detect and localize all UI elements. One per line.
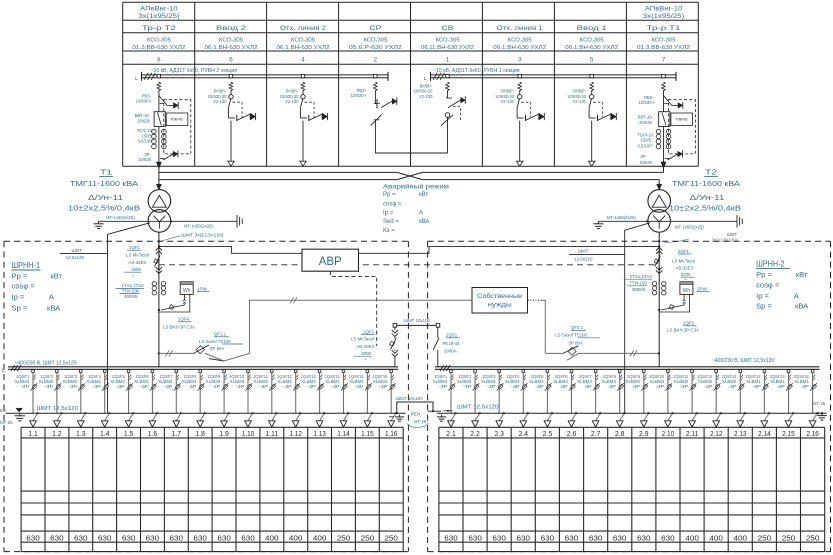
feeder 2QSF5 (529, 370, 553, 427)
aux supply box (Sobstvennye nuzhdy) (472, 288, 528, 314)
svg-text:Рр =: Рр = (383, 192, 396, 198)
feeder 2QSF10 (649, 370, 674, 427)
switch QF2.1 (545, 346, 660, 360)
table row: cell names (142, 25, 681, 32)
svg-text:250: 250 (806, 533, 820, 542)
svg-text:1.6: 1.6 (148, 429, 158, 438)
cell 1 (SV): VNVR bus coupler switch (441, 74, 465, 153)
feeder 2QSF1 (433, 370, 457, 427)
svg-text:0,5/10Р: 0,5/10Р (138, 139, 153, 144)
feeder table ShRNN-2 frame (439, 427, 825, 551)
svg-text:АВР: АВР (319, 256, 342, 268)
svg-text:Тр-р Т1: Тр-р Т1 (647, 25, 682, 32)
svg-text:0,5/10Р: 0,5/10Р (638, 143, 653, 148)
svg-text:КСО-305: КСО-305 (363, 38, 388, 44)
CT 2TA1,2TA3 (652, 281, 666, 295)
CT 1TA1,1TA3 (152, 281, 166, 295)
feeder table ShRNN-1 circuit numbers (28, 429, 397, 438)
svg-text:-3Р: -3Р (69, 384, 78, 389)
svg-text:630: 630 (170, 533, 184, 542)
svg-text:400: 400 (709, 533, 723, 542)
svg-text:1.5: 1.5 (124, 429, 134, 438)
svg-text:ШМТ 12,5х120: ШМТ 12,5х120 (37, 406, 79, 412)
HV switchgear table frame (123, 2, 699, 166)
feeder 1QSF10 (229, 370, 254, 427)
cell 6 (Vvod 2): VNVR switch (228, 74, 256, 166)
emergency mode text block (383, 183, 449, 233)
svg-text:У2-130: У2-130 (213, 99, 227, 104)
svg-text:3Р 80А: 3Р 80А (210, 346, 224, 351)
svg-text:630: 630 (565, 533, 579, 542)
svg-text:06.1.ВН-630 УХЛ2: 06.1.ВН-630 УХЛ2 (277, 45, 330, 51)
switch QF1.1 (194, 345, 250, 361)
svg-text:2ТА1,2ТА3: 2ТА1,2ТА3 (630, 274, 652, 279)
svg-text:10/630: 10/630 (138, 157, 151, 162)
svg-text:Т1: Т1 (100, 168, 112, 177)
svg-text:1PW: 1PW (197, 286, 208, 291)
svg-text:3х(1х95/25): 3х(1х95/25) (138, 13, 179, 20)
svg-text:2PW: 2PW (697, 286, 708, 291)
svg-text:cosφ =: cosφ = (383, 201, 402, 207)
ShMT bus label left (60, 248, 108, 260)
svg-text:630: 630 (241, 533, 255, 542)
T2 LV bus label (664, 232, 738, 243)
svg-text:2.7: 2.7 (591, 429, 601, 438)
svg-text:Wh: Wh (183, 288, 191, 294)
svg-text:2.5: 2.5 (543, 429, 553, 438)
svg-text:1.16: 1.16 (385, 429, 398, 438)
svg-text:2.6: 2.6 (567, 429, 577, 438)
svg-text:Δ/Ун-11: Δ/Ун-11 (88, 193, 123, 202)
svg-text:630: 630 (541, 533, 555, 542)
svg-text:~10 кВ, АД31Т 6х60, РУВН 1 сек: ~10 кВ, АД31Т 6х60, РУВН 1 секция (433, 68, 520, 74)
ShMT bus label right (569, 249, 625, 262)
PE bus right (437, 401, 827, 420)
svg-text:7: 7 (662, 57, 666, 64)
cell 2 labels (351, 88, 367, 98)
svg-text:630: 630 (468, 533, 482, 542)
T1 LV bus label (162, 233, 225, 241)
svg-text:1QF4: 1QF4 (178, 317, 190, 322)
svg-text:LS MeTasol: LS MeTasol (126, 253, 149, 258)
svg-text:-3Р: -3Р (260, 384, 269, 389)
svg-text:Кэ =: Кэ = (383, 228, 395, 234)
svg-text:Sр =: Sр = (756, 301, 772, 310)
feeder 2QSF13 (722, 370, 747, 427)
svg-text:ЗР-: ЗР- (640, 154, 647, 159)
svg-text:6: 6 (229, 57, 233, 64)
svg-text:-3Р: -3Р (607, 384, 616, 389)
svg-text:Рр =: Рр = (756, 270, 772, 279)
svg-text:нужды: нужды (488, 302, 512, 309)
busbar section 2 (10 kV) (135, 72, 388, 81)
svg-text:630: 630 (74, 533, 88, 542)
svg-text:Wh: Wh (683, 288, 691, 294)
svg-text:кВт: кВт (419, 192, 428, 198)
svg-text:630: 630 (637, 533, 651, 542)
svg-text:PEN: PEN (411, 411, 420, 416)
svg-text:LS Susol ТЕ100: LS Susol ТЕ100 (199, 339, 231, 344)
wire: riser to aux box left (250, 297, 473, 353)
wire: cell 8 drop (158, 166, 160, 179)
T1 HV cable termination right (184, 215, 242, 229)
table row: cell numbers (157, 57, 666, 64)
wire crossover X (397, 172, 423, 179)
svg-text:2000А: 2000А (444, 349, 457, 354)
svg-text:МГ-1х50(2х25): МГ-1х50(2х25) (675, 225, 704, 230)
wire: drop into T2 with arrow (657, 180, 662, 190)
cell 6 labels (208, 89, 228, 104)
svg-text:400: 400 (289, 533, 303, 542)
svg-text:06.1.ВН-630 УХЛ2: 06.1.ВН-630 УХЛ2 (493, 45, 546, 51)
svg-text:Iр =: Iр = (756, 291, 769, 300)
svg-text:400: 400 (265, 533, 279, 542)
svg-text:3: 3 (518, 57, 522, 64)
svg-text:10/630-I: 10/630-I (639, 100, 654, 105)
2QF1 label (672, 249, 695, 283)
svg-text:1: 1 (446, 57, 450, 64)
cell 3 (Otkh. liniya 1): VNVR switch (517, 74, 545, 166)
wire: T2 riser (658, 232, 660, 367)
svg-text:РЕ19-44: РЕ19-44 (443, 341, 461, 346)
svg-text:-3Р: -3Р (140, 384, 149, 389)
svg-text:250: 250 (758, 533, 772, 542)
wire: drop into T1 with arrow (156, 180, 161, 190)
feeder 2QSF8 (601, 370, 625, 427)
svg-text:01.3.ВВ-630 УХЛ2: 01.3.ВВ-630 УХЛ2 (132, 45, 185, 51)
cell 3 labels (495, 89, 515, 104)
feeder 1QSF16 (372, 370, 397, 427)
svg-text:-3Р: -3Р (487, 384, 496, 389)
svg-text:КСО-305: КСО-305 (652, 38, 677, 44)
svg-text:АПвВнг-10: АПвВнг-10 (140, 6, 178, 13)
svg-text:1.7: 1.7 (172, 429, 182, 438)
svg-text:3200: 3200 (681, 272, 691, 277)
Wh wiring T1 (158, 294, 190, 312)
svg-text:-3Р: -3Р (535, 384, 544, 389)
transformer T2 symbol (648, 190, 671, 233)
svg-text:Отх. линия 2: Отх. линия 2 (280, 25, 326, 32)
wire: aux box dotted tail (528, 300, 545, 353)
svg-text:3200: 3200 (131, 267, 141, 272)
T1 neutral ground (94, 215, 238, 229)
svg-text:У2-130: У2-130 (573, 99, 587, 104)
svg-text:СР: СР (369, 25, 381, 32)
svg-text:06.1.ВН-630 УХЛ2: 06.1.ВН-630 УХЛ2 (205, 45, 258, 51)
svg-text:630: 630 (444, 533, 458, 542)
svg-text:-3Р: -3Р (21, 384, 30, 389)
wire: QF1.1 tap from T1 riser (158, 350, 194, 356)
svg-text:2.11: 2.11 (686, 429, 699, 438)
busbar section 1 (10 kV) (424, 72, 676, 81)
svg-text:630: 630 (98, 533, 112, 542)
svg-text:LS Susol ТЕ100: LS Susol ТЕ100 (555, 333, 587, 338)
svg-text:ШМТ 10х100: ШМТ 10х100 (396, 396, 423, 401)
svg-text:-3Р: -3Р (559, 384, 568, 389)
svg-text:-3Р: -3Р (728, 384, 737, 389)
svg-text:2.14: 2.14 (758, 429, 771, 438)
2QS1 label (443, 333, 461, 354)
svg-text:1.15: 1.15 (361, 429, 374, 438)
QF2.1 label (555, 325, 600, 345)
svg-text:ТТИ-100: ТТИ-100 (122, 288, 140, 293)
svg-text:-3Р: -3Р (439, 384, 448, 389)
feeder 1QSF14 (325, 370, 350, 427)
svg-text:8: 8 (157, 57, 161, 64)
svg-text:ШРНН-1: ШРНН-1 (12, 261, 41, 270)
svg-text:L: L (424, 76, 427, 81)
svg-text:кВА: кВА (419, 219, 429, 225)
svg-text:01.3.ВВ-630 УХЛ2: 01.3.ВВ-630 УХЛ2 (637, 45, 690, 51)
breaker 2QF1 (654, 248, 662, 274)
svg-text:630: 630 (26, 533, 40, 542)
svg-text:AS-32E3: AS-32E3 (128, 260, 146, 265)
svg-text:10/630-I: 10/630-I (136, 98, 151, 103)
ground middle right (437, 410, 453, 421)
svg-text:05.6.Р-630 УХЛ2: 05.6.Р-630 УХЛ2 (349, 45, 402, 51)
feeder 2QSF7 (577, 370, 601, 427)
ShRNN-2 data block (756, 260, 809, 311)
svg-text:КСО-305: КСО-305 (436, 38, 461, 44)
svg-text:20/630: 20/630 (639, 120, 652, 125)
svg-text:2.9: 2.9 (639, 429, 649, 438)
T2 neutral conductor wire (625, 223, 650, 413)
cell 4 labels (280, 89, 300, 104)
svg-text:06.1.ВН-630 УХЛ2: 06.1.ВН-630 УХЛ2 (565, 45, 618, 51)
svg-text:630: 630 (217, 533, 231, 542)
feeder 1QSF15 (349, 370, 374, 427)
feeder table ShRNN-2 breaker ratings (444, 533, 819, 542)
QF1.1 label (199, 332, 243, 351)
feeder 1QSF7 (158, 370, 182, 427)
svg-text:1.14: 1.14 (337, 429, 350, 438)
svg-text:-3Р: -3Р (355, 384, 364, 389)
svg-text:Рр =: Рр = (12, 272, 28, 281)
Wh wiring T2 (658, 294, 690, 312)
svg-text:ШМТ 12,5х120: ШМТ 12,5х120 (457, 405, 499, 411)
svg-text:20/630: 20/630 (137, 118, 150, 123)
svg-text:06.11.ВН-630 УХЛ2: 06.11.ВН-630 УХЛ2 (421, 45, 474, 51)
feeder 2QSF3 (481, 370, 505, 427)
svg-text:2.4: 2.4 (519, 429, 529, 438)
transformer T2 labels (669, 168, 741, 213)
PE bus left (0, 406, 406, 425)
svg-text:630: 630 (122, 533, 136, 542)
svg-text:~400/230 В, ШМТ 12,5х120: ~400/230 В, ШМТ 12,5х120 (712, 358, 774, 364)
svg-text:1.9: 1.9 (219, 429, 229, 438)
ShRNN-1 panel dashed border (4, 241, 408, 551)
feeder 1QSF8 (182, 370, 206, 427)
svg-text:кВт: кВт (50, 272, 62, 281)
svg-text:1.1: 1.1 (28, 429, 38, 438)
svg-text:РЭВ-М2: РЭВ-М2 (171, 118, 183, 122)
LV busbar section 1 (left) (2, 365, 398, 372)
svg-text:12,5х120: 12,5х120 (66, 255, 85, 260)
feeder 2QSF2 (457, 370, 481, 427)
wire: AVR line to 2QF1 (359, 247, 660, 254)
breaker 1QF2 (390, 327, 399, 367)
svg-text:AN-20E3: AN-20E3 (356, 344, 374, 349)
svg-text:ШМТ: ШМТ (72, 248, 83, 253)
svg-text:630: 630 (517, 533, 531, 542)
feeder 1QSF6 (134, 370, 158, 427)
svg-text:Т2: Т2 (705, 168, 717, 177)
svg-text:-3Р: -3Р (511, 384, 520, 389)
svg-text:630: 630 (50, 533, 64, 542)
svg-text:400: 400 (313, 533, 327, 542)
cell 2 (SR): RVZ section disconnector (371, 74, 397, 153)
svg-text:-3Р: -3Р (92, 384, 101, 389)
table row: cable type labels (138, 6, 684, 21)
svg-text:250: 250 (782, 533, 796, 542)
ShRNN-2 panel dashed border (428, 241, 831, 551)
svg-text:2.16: 2.16 (806, 429, 819, 438)
2QF3 label (667, 321, 699, 333)
svg-text:МГ-25: МГ-25 (414, 419, 427, 424)
svg-text:630: 630 (492, 533, 506, 542)
svg-text:Δ/Ун-11: Δ/Ун-11 (690, 193, 725, 202)
svg-text:2000: 2000 (361, 351, 371, 356)
svg-text:-3Р: -3Р (463, 384, 472, 389)
wire: section link SR to SV (375, 152, 447, 154)
svg-text:КСО-305: КСО-305 (291, 38, 316, 44)
svg-text:-3Р: -3Р (632, 384, 641, 389)
AVR control dashed line (159, 264, 655, 266)
svg-text:-3Р: -3Р (331, 384, 340, 389)
svg-text:Ввод 2: Ввод 2 (216, 25, 247, 32)
svg-text:Sеd =: Sеd = (383, 219, 399, 225)
svg-text:-3Р: -3Р (45, 384, 54, 389)
svg-text:LS MeTasol: LS MeTasol (351, 337, 374, 342)
feeder 2QSF16 (794, 370, 819, 427)
svg-text:СВ: СВ (442, 25, 454, 32)
svg-text:Аварийный режим: Аварийный режим (383, 183, 449, 190)
feeder 1QSF1 (15, 370, 39, 427)
svg-text:630: 630 (613, 533, 627, 542)
svg-text:-3Р: -3Р (283, 384, 292, 389)
svg-text:1.2: 1.2 (52, 429, 62, 438)
svg-text:2.13: 2.13 (734, 429, 747, 438)
feeder table ShRNN-1 breaker ratings (26, 533, 398, 542)
svg-text:*: * (132, 274, 134, 279)
PEN bridge between panels (396, 396, 441, 415)
svg-text:~400/230 В, ШМТ 12,5х120: ~400/230 В, ШМТ 12,5х120 (15, 360, 77, 366)
svg-text:ТМГ11-1600 кВА: ТМГ11-1600 кВА (70, 179, 138, 188)
feeder 2QSF11 (673, 370, 698, 427)
svg-text:LS MeTasol: LS MeTasol (672, 259, 695, 264)
transformer T1 symbol (148, 190, 171, 233)
ShRNN-1 data block (12, 261, 63, 312)
feeder 1QSF13 (301, 370, 326, 427)
svg-text:5: 5 (590, 57, 594, 64)
feeder 1QSF11 (253, 370, 278, 427)
svg-text:-3Р: -3Р (116, 384, 125, 389)
svg-text:400: 400 (685, 533, 699, 542)
feeder 2QSF14 (746, 370, 771, 427)
svg-text:10±2х2,5%/0,4кВ: 10±2х2,5%/0,4кВ (68, 203, 140, 212)
svg-text:2.1: 2.1 (446, 429, 456, 438)
svg-text:2QF3: 2QF3 (683, 321, 695, 326)
svg-text:МГ-1х50(2х25): МГ-1х50(2х25) (184, 224, 213, 229)
bus tie bridge (393, 324, 440, 328)
svg-text:-3Р: -3Р (800, 384, 809, 389)
svg-text:1.8: 1.8 (195, 429, 205, 438)
svg-text:LS BKN 3Р С3А: LS BKN 3Р С3А (667, 327, 699, 332)
feeder 1QSF5 (110, 370, 134, 427)
svg-text:1.3: 1.3 (76, 429, 86, 438)
svg-text:Iр =: Iр = (383, 210, 394, 216)
cell 7 labels (637, 95, 654, 165)
svg-text:-3Р: -3Р (188, 384, 197, 389)
svg-text:2QS1: 2QS1 (446, 333, 458, 338)
cell 5 (Vvod 1): VNVR switch (589, 74, 617, 166)
svg-text:ШМТ: ШМТ (578, 249, 589, 254)
svg-text:А: А (419, 210, 423, 216)
svg-text:10/630: 10/630 (639, 160, 652, 165)
cell 8 (Tr-r T2): RVZ disconnector, VVT breaker, CTs, ZR earth switch (152, 74, 191, 168)
svg-text:1.13: 1.13 (313, 429, 326, 438)
svg-text:Собственные: Собственные (477, 292, 522, 300)
feeder 2QSF4 (505, 370, 529, 427)
cell 4 (Otkh. liniya 2): VNVR switch (300, 74, 328, 166)
wire: AVR line from 1QF1 (159, 247, 302, 254)
2TA label (624, 274, 653, 292)
svg-text:-3Р: -3Р (752, 384, 761, 389)
feeder 2QSF6 (553, 370, 577, 427)
svg-text:МГ-1х50(2х25): МГ-1х50(2х25) (607, 215, 636, 220)
svg-text:2QF1: 2QF1 (678, 249, 690, 254)
svg-text:-3Р: -3Р (680, 384, 689, 389)
feeder 1QSF4 (86, 370, 110, 427)
svg-text:630: 630 (589, 533, 603, 542)
1TA label (116, 283, 145, 299)
svg-text:У2-230: У2-230 (419, 94, 433, 99)
svg-text:МГ-25: МГ-25 (813, 401, 826, 406)
svg-text:АПвВнг-10: АПвВнг-10 (645, 6, 683, 13)
svg-text:кВА: кВА (795, 301, 809, 310)
feeder 1QSF9 (206, 370, 230, 427)
svg-text:-3Р: -3Р (236, 384, 245, 389)
switch 2QS1 (433, 327, 439, 367)
svg-text:У2-130: У2-130 (285, 99, 299, 104)
breaker 1QF1 (154, 248, 162, 274)
T2 HV cable termination right (675, 215, 742, 230)
1QF1 label (124, 245, 149, 279)
svg-text:МГ-1х50(2х25): МГ-1х50(2х25) (106, 215, 135, 220)
feeder 2QSF12 (697, 370, 722, 427)
svg-text:~10 кВ, АД31Т 6х60, РУВН 2 сек: ~10 кВ, АД31Т 6х60, РУВН 2 секция (151, 68, 238, 74)
svg-text:РЭВ-М2: РЭВ-М2 (676, 118, 688, 122)
svg-text:1QF2: 1QF2 (363, 329, 375, 334)
svg-text:КСО-305: КСО-305 (508, 38, 533, 44)
svg-text:630: 630 (146, 533, 160, 542)
svg-text:2.15: 2.15 (782, 429, 795, 438)
svg-text:4: 4 (301, 57, 305, 64)
PEN label middle (407, 411, 429, 427)
svg-text:-3Р: -3Р (656, 384, 665, 389)
wire: transformer feed lower line (159, 179, 659, 181)
svg-text:-3Р: -3Р (164, 384, 173, 389)
svg-text:Sр =: Sр = (12, 303, 28, 312)
svg-text:1QF1: 1QF1 (129, 245, 141, 250)
cell 7 (Tr-r T1): RVZ disconnector, VVT breaker, CTs, ZR earth switch (656, 74, 695, 168)
AVR box (302, 249, 359, 271)
LV busbar section 2 (right) (435, 365, 820, 371)
svg-text:250: 250 (361, 533, 375, 542)
cell 5 labels (567, 89, 587, 104)
svg-text:QF2.1: QF2.1 (571, 325, 584, 330)
svg-text:LS BKN 3Р С3А: LS BKN 3Р С3А (163, 324, 195, 329)
